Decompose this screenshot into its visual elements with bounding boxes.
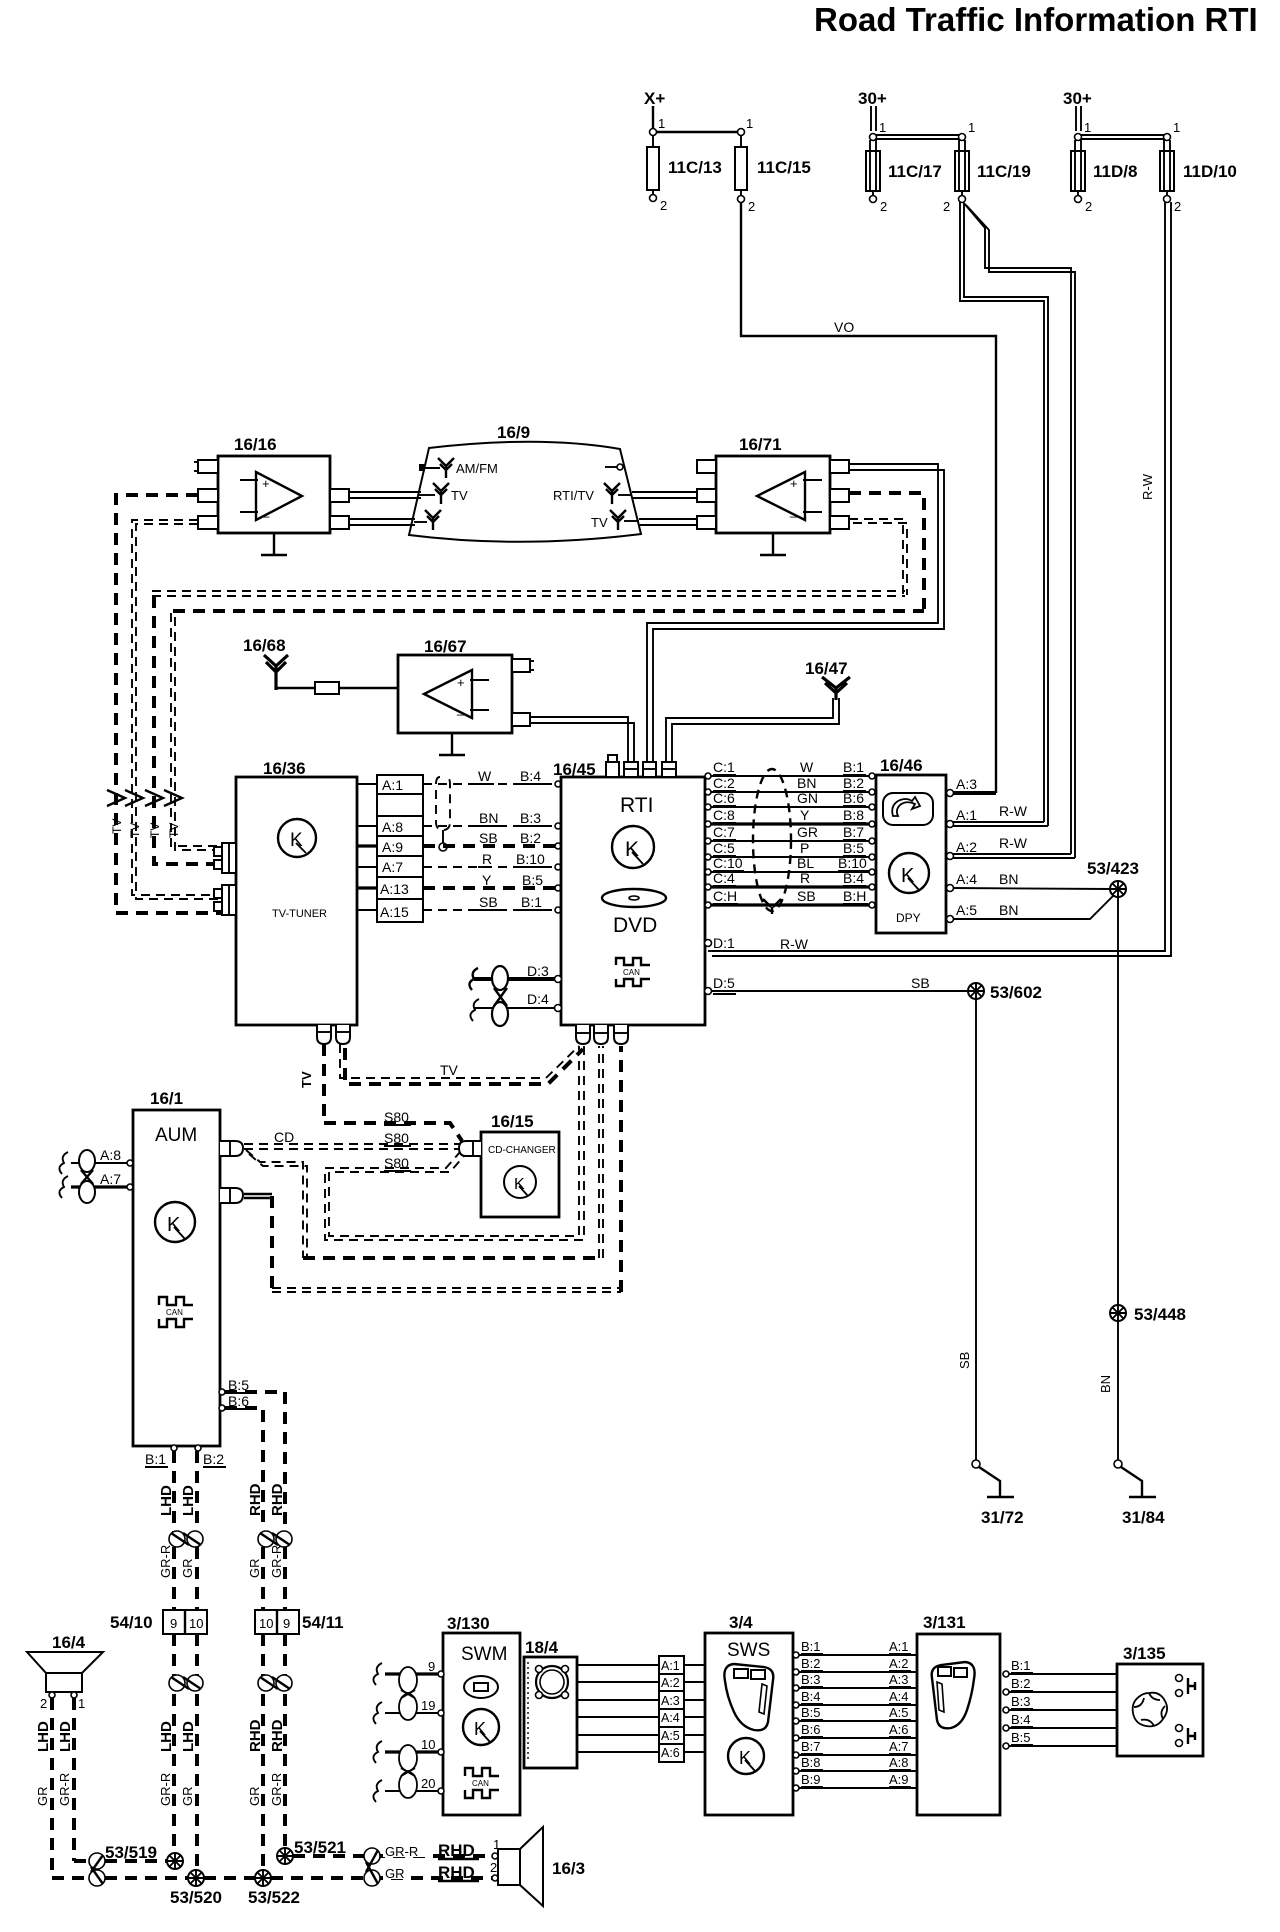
svg-text:B:1: B:1 bbox=[521, 894, 542, 910]
amplifier 16/67 bbox=[398, 637, 534, 733]
pin A:8 (16/1) bbox=[59, 1147, 133, 1174]
svg-text:20: 20 bbox=[421, 1776, 435, 1791]
svg-text:CAN: CAN bbox=[472, 1779, 489, 1788]
twisted crossover (LHD pair upper) bbox=[169, 1531, 203, 1547]
svg-text:B:7: B:7 bbox=[843, 824, 864, 840]
antenna TV left (16/9) bbox=[419, 483, 468, 504]
svg-text:B:3: B:3 bbox=[520, 810, 541, 826]
svg-text:X+: X+ bbox=[644, 89, 665, 108]
wire LHD pair below 54/10 bbox=[174, 1634, 197, 1870]
connector 18/4 bbox=[524, 1638, 577, 1768]
svg-text:A:5: A:5 bbox=[889, 1705, 909, 1720]
title Road Traffic Information RTI bbox=[814, 1, 1258, 38]
svg-text:BL: BL bbox=[797, 855, 814, 871]
connector block A (16/36) bbox=[377, 775, 423, 922]
svg-text:B:1: B:1 bbox=[145, 1451, 166, 1467]
svg-text:+: + bbox=[262, 476, 270, 491]
svg-text:GN: GN bbox=[797, 790, 818, 806]
svg-text:A:15: A:15 bbox=[380, 904, 409, 920]
svg-text:B:2: B:2 bbox=[843, 775, 864, 791]
svg-text:16/67: 16/67 bbox=[424, 637, 467, 656]
wire A:5 (BN) bbox=[947, 895, 1115, 923]
twisted pair symbol (A:8/A:7) bbox=[79, 1150, 95, 1203]
svg-text:B:6: B:6 bbox=[843, 790, 864, 806]
svg-text:16/36: 16/36 bbox=[263, 759, 306, 778]
svg-text:53/448: 53/448 bbox=[1134, 1305, 1186, 1324]
wire A:1-B:4 (W) bbox=[423, 768, 561, 787]
svg-text:S80: S80 bbox=[384, 1109, 409, 1125]
wire RHD pair mid bbox=[263, 1547, 285, 1610]
svg-text:W: W bbox=[478, 768, 492, 784]
connector stub2 right (16/1) bbox=[220, 1188, 243, 1203]
svg-text:A:1: A:1 bbox=[382, 777, 403, 793]
svg-text:A:4: A:4 bbox=[956, 871, 977, 887]
node 30+ (second) bbox=[1063, 89, 1092, 131]
ground 31/72 bbox=[972, 1460, 1024, 1527]
svg-text:16/68: 16/68 bbox=[243, 636, 286, 655]
svg-text:A:1: A:1 bbox=[661, 1659, 680, 1673]
svg-text:B:1: B:1 bbox=[1011, 1658, 1031, 1673]
svg-text:16/15: 16/15 bbox=[491, 1112, 534, 1131]
svg-text:LHD: LHD bbox=[57, 1721, 74, 1752]
svg-text:30+: 30+ bbox=[858, 89, 887, 108]
svg-text:A:7: A:7 bbox=[100, 1171, 121, 1187]
wire VO (11C/15 to 16/46 A:3) bbox=[741, 202, 996, 793]
fuse 11D/10 bbox=[1160, 140, 1237, 214]
svg-text:53/519: 53/519 bbox=[105, 1843, 157, 1862]
svg-text:TV: TV bbox=[110, 819, 124, 834]
wire 16/16 to 16/9 (TV) bbox=[349, 492, 421, 498]
svg-text:TV: TV bbox=[148, 823, 162, 838]
wire A:4 (BN) bbox=[947, 871, 1111, 892]
wire A:7-B:10 (R) bbox=[423, 851, 561, 870]
svg-text:31/72: 31/72 bbox=[981, 1508, 1024, 1527]
junction 53/602 bbox=[968, 983, 1042, 1002]
wire BN (53/423 to ground 31/84) bbox=[1098, 897, 1118, 1461]
svg-text:LHD: LHD bbox=[35, 1721, 52, 1752]
connector stub1 right (16/1) bbox=[220, 1141, 243, 1156]
wire C:1-B:1 (W) bbox=[705, 759, 875, 779]
antenna TV right (16/9) bbox=[591, 510, 639, 530]
svg-text:TV: TV bbox=[591, 515, 608, 530]
svg-text:10: 10 bbox=[189, 1616, 203, 1631]
CD changer 16/15 bbox=[481, 1112, 559, 1217]
svg-text:D:3: D:3 bbox=[527, 963, 549, 979]
dashed bus y611 bbox=[171, 611, 924, 850]
twisted crossover (RHD pair upper) bbox=[258, 1531, 292, 1547]
antenna unit 16/9 bbox=[409, 423, 641, 542]
svg-text:2: 2 bbox=[1174, 199, 1181, 214]
svg-text:B:10: B:10 bbox=[838, 855, 867, 871]
svg-text:CD: CD bbox=[274, 1129, 294, 1145]
svg-text:TV: TV bbox=[440, 1062, 459, 1078]
wire 16/36 to block A bbox=[357, 784, 377, 910]
wire 11C/19 to 16/46 A:1 (R-W) bbox=[960, 202, 1075, 858]
connector block A (SWS) bbox=[659, 1656, 684, 1762]
control panel 3/135 bbox=[1117, 1644, 1203, 1756]
amplifier 16/16 bbox=[194, 435, 349, 533]
pin 9 (3/130) bbox=[373, 1659, 444, 1685]
pin 19 (3/130) bbox=[373, 1698, 444, 1724]
svg-text:SB: SB bbox=[911, 975, 930, 991]
junction 53/522 bbox=[248, 1870, 300, 1907]
svg-text:53/522: 53/522 bbox=[248, 1888, 300, 1907]
wire A:1 (R-W) bbox=[947, 803, 1049, 828]
svg-text:A:5: A:5 bbox=[661, 1729, 680, 1743]
svg-text:GR-R: GR-R bbox=[158, 1545, 173, 1578]
svg-text:GR: GR bbox=[247, 1559, 262, 1579]
labels SWS B pins bbox=[801, 1639, 911, 1787]
svg-text:2: 2 bbox=[943, 199, 950, 214]
wire S80 line1 (x324 to 16/15) bbox=[324, 1109, 462, 1141]
svg-text:A:6: A:6 bbox=[889, 1722, 909, 1737]
wire 16/9 to 16/71 (RTI/TV) bbox=[632, 492, 697, 498]
pin B:5 (16/1) bbox=[219, 1377, 250, 1395]
svg-text:B:3: B:3 bbox=[801, 1672, 821, 1687]
wire 16/71 bottom to dashed bus y593 bbox=[849, 519, 907, 595]
wire A:2 (R-W) bbox=[947, 835, 1076, 860]
svg-text:B:5: B:5 bbox=[522, 872, 543, 888]
svg-text:BN: BN bbox=[999, 871, 1018, 887]
svg-text:A:3: A:3 bbox=[889, 1672, 909, 1687]
dashed bus y593 bbox=[152, 591, 905, 864]
svg-text:30+: 30+ bbox=[1063, 89, 1092, 108]
wire C:6-B:6 (GN) bbox=[705, 790, 875, 810]
svg-text:BN: BN bbox=[797, 775, 816, 791]
svg-text:A:4: A:4 bbox=[889, 1689, 909, 1704]
wire B:2 down (LHD) bbox=[195, 1451, 199, 1532]
connector 54/11 bbox=[255, 1610, 344, 1634]
svg-text:VO: VO bbox=[834, 319, 854, 335]
twisted crossover (RHD pair lower) bbox=[258, 1675, 292, 1691]
svg-text:R: R bbox=[800, 870, 810, 886]
svg-text:A:7: A:7 bbox=[889, 1739, 909, 1754]
svg-text:GR-R: GR-R bbox=[57, 1773, 72, 1806]
svg-text:2: 2 bbox=[490, 1860, 497, 1875]
svg-text:TV: TV bbox=[128, 823, 142, 838]
svg-text:A:13: A:13 bbox=[380, 881, 409, 897]
svg-text:SB: SB bbox=[479, 894, 498, 910]
svg-text:C:10: C:10 bbox=[713, 855, 743, 871]
wire 16/67 to 16/45 stub2 bbox=[530, 717, 634, 762]
twisted pair symbol (9/19) bbox=[399, 1667, 417, 1720]
svg-text:B:5: B:5 bbox=[843, 840, 864, 856]
svg-text:Road Traffic Information RTI: Road Traffic Information RTI bbox=[814, 1, 1258, 38]
CAN symbol (16/1) bbox=[159, 1297, 193, 1327]
svg-text:RHD: RHD bbox=[269, 1483, 286, 1516]
pin top right (16/9) bbox=[605, 464, 623, 470]
wire 16/71 top to 16/45 stub3 (solid loop) bbox=[647, 464, 944, 762]
svg-text:A:1: A:1 bbox=[956, 807, 977, 823]
label RHD pair upper bbox=[247, 1483, 286, 1578]
svg-text:16/47: 16/47 bbox=[805, 659, 848, 678]
wires block A to SWS bbox=[684, 1665, 705, 1752]
wire A:3 (16/46 to VO) bbox=[947, 776, 978, 797]
wire C:10-B:10 (BL) bbox=[705, 855, 875, 875]
wire C:7-B:7 (GR) bbox=[705, 824, 875, 844]
wire A:13-B:5 (Y) bbox=[423, 872, 561, 891]
svg-text:C:7: C:7 bbox=[713, 824, 735, 840]
svg-text:SB: SB bbox=[479, 830, 498, 846]
twisted crossover (16/4 tails) bbox=[52, 1853, 105, 1886]
connector stubs bottom (16/36) bbox=[317, 1025, 350, 1044]
label LHD pair lower bbox=[158, 1721, 197, 1806]
svg-text:3/4: 3/4 bbox=[729, 1613, 753, 1632]
antenna 16/68 bbox=[243, 636, 288, 690]
svg-text:GR-R: GR-R bbox=[269, 1545, 284, 1578]
svg-text:GR: GR bbox=[797, 824, 818, 840]
svg-text:A:3: A:3 bbox=[956, 776, 977, 792]
ground (16/16) bbox=[261, 533, 287, 555]
svg-text:B:9: B:9 bbox=[801, 1772, 821, 1787]
svg-text:B:4: B:4 bbox=[1011, 1712, 1031, 1727]
svg-text:A:2: A:2 bbox=[661, 1676, 680, 1690]
svg-text:+: + bbox=[457, 675, 465, 690]
svg-text:3/130: 3/130 bbox=[447, 1614, 490, 1633]
TV tuner 16/36 bbox=[236, 759, 357, 1025]
svg-text:1: 1 bbox=[746, 116, 753, 131]
antenna AM/FM (16/9) bbox=[419, 458, 498, 478]
svg-text:S80: S80 bbox=[384, 1155, 409, 1171]
node TV arrows bbox=[107, 790, 182, 838]
svg-text:9: 9 bbox=[428, 1659, 435, 1674]
svg-text:16/1: 16/1 bbox=[150, 1089, 183, 1108]
audio module 16/1 bbox=[133, 1089, 220, 1446]
RTI DVD unit 16/45 bbox=[553, 760, 705, 1025]
svg-text:BN: BN bbox=[479, 810, 498, 826]
svg-text:+: + bbox=[790, 476, 798, 491]
svg-text:2: 2 bbox=[1085, 199, 1092, 214]
fuse 11C/19 bbox=[943, 140, 1031, 214]
wire 16/16 mid stub to 16/36 (left dashed vertical x116) bbox=[116, 495, 222, 913]
svg-text:RHD: RHD bbox=[438, 1841, 475, 1860]
wires 18/4 to block A bbox=[577, 1665, 659, 1752]
svg-text:C:5: C:5 bbox=[713, 840, 735, 856]
svg-text:TV: TV bbox=[451, 488, 468, 503]
svg-text:SB: SB bbox=[957, 1352, 972, 1369]
twisted crossover (LHD pair lower) bbox=[169, 1675, 203, 1691]
svg-text:A:4: A:4 bbox=[661, 1711, 680, 1725]
connector stubs left (16/36) bbox=[214, 843, 236, 915]
wire S80 (AUM stub2 to 16/45 stub3) bbox=[244, 1046, 621, 1292]
svg-text:16/46: 16/46 bbox=[880, 756, 923, 775]
svg-text:A:6: A:6 bbox=[661, 1746, 680, 1760]
svg-text:16/71: 16/71 bbox=[739, 435, 782, 454]
svg-text:16/16: 16/16 bbox=[234, 435, 277, 454]
wire RHD pair below 54/11 bbox=[263, 1634, 285, 1870]
svg-text:3/131: 3/131 bbox=[923, 1613, 966, 1632]
svg-text:B:8: B:8 bbox=[801, 1755, 821, 1770]
svg-text:10: 10 bbox=[259, 1616, 273, 1631]
svg-text:_: _ bbox=[789, 503, 798, 518]
svg-text:TV: TV bbox=[299, 1071, 314, 1088]
svg-text:C:6: C:6 bbox=[713, 790, 735, 806]
svg-text:B:2: B:2 bbox=[1011, 1676, 1031, 1691]
wire A:9-B:2 (SB) bbox=[423, 830, 561, 849]
svg-text:W: W bbox=[800, 759, 814, 775]
wire B:6 to RHD left bbox=[225, 1408, 263, 1530]
svg-text:11C/19: 11C/19 bbox=[977, 162, 1031, 181]
svg-text:11D/8: 11D/8 bbox=[1093, 162, 1137, 181]
wire A:15-B:1 (SB) bbox=[423, 894, 561, 913]
wire TV bus (16/36 stub2 to 16/45 stub1) bbox=[340, 1044, 583, 1084]
svg-text:54/10: 54/10 bbox=[110, 1613, 153, 1632]
svg-text:RHD: RHD bbox=[438, 1863, 475, 1882]
pin A:7 (16/1) bbox=[59, 1171, 133, 1198]
wire 16/47 to 16/45 stub4 bbox=[666, 698, 839, 762]
svg-text:GR: GR bbox=[180, 1559, 195, 1579]
svg-text:9: 9 bbox=[283, 1616, 290, 1631]
twisted crossover (16/3 tails) bbox=[364, 1848, 380, 1886]
svg-text:SWS: SWS bbox=[727, 1640, 770, 1661]
svg-text:TV: TV bbox=[167, 823, 181, 838]
wire SB to ground 31/72 bbox=[957, 999, 976, 1461]
ground (16/71) bbox=[760, 533, 786, 555]
svg-text:CD-CHANGER: CD-CHANGER bbox=[488, 1145, 556, 1156]
svg-text:B:4: B:4 bbox=[520, 768, 541, 784]
wire 16/9 to 16/71 (TV) bbox=[639, 519, 697, 525]
wire 16/16 lower stub to 16/36 (left dashed vertical x134) bbox=[132, 520, 222, 899]
shield ellipse (C rows) bbox=[753, 769, 791, 914]
wire 16/71 mid to dashed bus y611 bbox=[849, 493, 924, 609]
svg-text:DPY: DPY bbox=[896, 911, 921, 925]
pin 20 (3/130) bbox=[373, 1776, 444, 1802]
svg-text:RHD: RHD bbox=[269, 1719, 286, 1752]
svg-text:A:5: A:5 bbox=[956, 902, 977, 918]
wire 16/16 to 16/9 (lower) bbox=[349, 519, 415, 525]
svg-text:1: 1 bbox=[78, 1696, 85, 1711]
svg-text:A:2: A:2 bbox=[889, 1656, 909, 1671]
junction 53/448 bbox=[1110, 1305, 1186, 1324]
svg-text:D:5: D:5 bbox=[713, 975, 735, 991]
pin 10 (3/130) bbox=[373, 1737, 444, 1763]
svg-text:53/602: 53/602 bbox=[990, 983, 1042, 1002]
svg-text:11D/10: 11D/10 bbox=[1183, 162, 1237, 181]
svg-text:SWM: SWM bbox=[461, 1644, 507, 1665]
svg-text:AUM: AUM bbox=[155, 1125, 197, 1146]
wire D:1 (R-W) bbox=[705, 935, 809, 952]
wire C:2-B:2 (BN) bbox=[705, 775, 875, 795]
junction 53/520 bbox=[170, 1870, 222, 1907]
svg-text:C:8: C:8 bbox=[713, 807, 735, 823]
wire R-W (11D/10 to 16/45 D:1) bbox=[712, 202, 1171, 956]
junction 53/521 bbox=[277, 1838, 346, 1864]
svg-text:LHD: LHD bbox=[158, 1721, 175, 1752]
svg-text:53/423: 53/423 bbox=[1087, 859, 1139, 878]
fuse 11D/8 bbox=[1071, 140, 1137, 214]
svg-text:A:3: A:3 bbox=[661, 1694, 680, 1708]
svg-text:CAN: CAN bbox=[166, 1308, 183, 1317]
wire to 53/520 and 53/522 bbox=[105, 1876, 492, 1880]
CAN symbol (16/45) bbox=[616, 958, 650, 986]
svg-text:GR-R: GR-R bbox=[269, 1773, 284, 1806]
CAN symbol (3/130) bbox=[465, 1768, 499, 1798]
svg-text:54/11: 54/11 bbox=[302, 1613, 344, 1632]
svg-text:S80: S80 bbox=[384, 1130, 409, 1146]
svg-text:C:H: C:H bbox=[713, 888, 737, 904]
svg-text:RTI/TV: RTI/TV bbox=[553, 488, 594, 503]
svg-text:16/4: 16/4 bbox=[52, 1633, 86, 1652]
connector stubs top (16/45) bbox=[606, 755, 676, 777]
svg-text:A:8: A:8 bbox=[100, 1147, 121, 1163]
switch module 3/131 bbox=[917, 1613, 1000, 1815]
label RHD pair lower bbox=[247, 1719, 286, 1806]
svg-text:31/84: 31/84 bbox=[1122, 1508, 1165, 1527]
wire CD (16/1 to 16/15) bbox=[244, 1129, 459, 1149]
wire 30+ link 2 bbox=[1075, 120, 1181, 141]
svg-text:GR: GR bbox=[385, 1866, 405, 1881]
svg-text:CAN: CAN bbox=[623, 968, 640, 977]
svg-text:Y: Y bbox=[800, 807, 810, 823]
svg-text:B:10: B:10 bbox=[516, 851, 545, 867]
svg-text:B:5: B:5 bbox=[801, 1705, 821, 1720]
wires 3/131 to 3/135 bbox=[1003, 1671, 1117, 1749]
svg-text:B:7: B:7 bbox=[801, 1739, 821, 1754]
svg-text:B:3: B:3 bbox=[1011, 1694, 1031, 1709]
svg-text:2: 2 bbox=[748, 199, 755, 214]
svg-text:GR: GR bbox=[35, 1787, 50, 1807]
svg-text:R-W: R-W bbox=[1140, 473, 1155, 500]
svg-text:BN: BN bbox=[999, 902, 1018, 918]
amplifier 16/71 bbox=[697, 435, 849, 533]
node X+ bbox=[644, 89, 665, 129]
connector stubs bottom (16/45) bbox=[576, 1025, 628, 1044]
svg-text:C:2: C:2 bbox=[713, 775, 735, 791]
twisted pair symbol (10/20) bbox=[399, 1745, 417, 1798]
svg-text:B:4: B:4 bbox=[843, 870, 864, 886]
svg-text:B:1: B:1 bbox=[843, 759, 864, 775]
wire 53/521 to 16/3 bbox=[293, 1854, 492, 1858]
twisted pair D:3/D:4 bbox=[469, 963, 561, 1026]
fuse 11C/13 bbox=[647, 135, 722, 213]
svg-text:11C/15: 11C/15 bbox=[757, 158, 811, 177]
pin B:1 B:2 (16/1) bbox=[145, 1445, 226, 1467]
svg-text:B:H: B:H bbox=[843, 888, 866, 904]
node 30+ (first) bbox=[858, 89, 887, 131]
antenna 16/47 bbox=[805, 659, 850, 700]
steering wheel switch 3/4 SWS bbox=[705, 1613, 793, 1815]
wire 16/68 to 16/67 bbox=[276, 682, 398, 694]
svg-text:R-W: R-W bbox=[999, 803, 1028, 819]
svg-text:A:9: A:9 bbox=[382, 839, 403, 855]
svg-text:A:7: A:7 bbox=[382, 859, 403, 875]
svg-text:10: 10 bbox=[421, 1737, 435, 1752]
connector 54/10 bbox=[110, 1610, 207, 1634]
ground 31/84 bbox=[1114, 1460, 1165, 1527]
svg-text:1: 1 bbox=[1173, 120, 1180, 135]
antenna RTI/TV (16/9) bbox=[553, 483, 632, 504]
svg-text:B:6: B:6 bbox=[801, 1722, 821, 1737]
svg-text:R-W: R-W bbox=[999, 835, 1028, 851]
wires SWS to 3/131 (B to A) bbox=[793, 1652, 917, 1791]
ground (16/67) bbox=[439, 733, 465, 755]
wire 30+ link 1 bbox=[870, 120, 976, 141]
wire D:5 (SB) to 53/602 bbox=[705, 975, 969, 995]
steering wheel module 3/130 SWM bbox=[443, 1614, 520, 1815]
svg-text:11C/13: 11C/13 bbox=[668, 158, 722, 177]
wire B:5 to RHD right bbox=[225, 1392, 285, 1530]
wire X+ link bbox=[650, 116, 754, 136]
label GR-R RHD 1 (16/3 wire 1) bbox=[383, 1837, 500, 1860]
svg-text:B:2: B:2 bbox=[520, 830, 541, 846]
wire B:1 down (LHD) bbox=[172, 1451, 176, 1532]
connector stub (16/15) bbox=[459, 1141, 481, 1156]
svg-text:1: 1 bbox=[1084, 120, 1091, 135]
svg-text:3/135: 3/135 bbox=[1123, 1644, 1166, 1663]
svg-text:A:8: A:8 bbox=[889, 1755, 909, 1770]
svg-text:SB: SB bbox=[797, 888, 816, 904]
svg-text:GR-R: GR-R bbox=[385, 1844, 418, 1859]
